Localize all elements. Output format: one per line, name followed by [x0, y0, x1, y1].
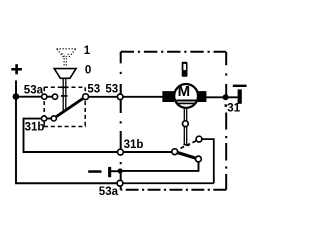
wire: motor 31b terminal to park pivot: [120, 151, 174, 153]
svg-text:53: 53: [105, 84, 118, 96]
switch knob position 1 (dotted funnel): [57, 49, 76, 66]
junction dot: terminal 31 on border: [223, 94, 229, 100]
svg-text:31b: 31b: [124, 139, 144, 151]
wire: park lower contact to ground junction: [120, 159, 199, 171]
thermal cut-out above motor: [182, 62, 188, 77]
wire: switch contact 53 to motor terminal 53 and motor brush: [86, 96, 163, 98]
svg-text:M: M: [178, 83, 191, 100]
switch lever 31b-53 (closed): [54, 97, 86, 119]
terminal 31b switch plug circles: [42, 116, 47, 121]
park switch lever solid (parked, on lower contact): [175, 152, 199, 159]
svg-text:31b: 31b: [25, 122, 45, 134]
wire: supply line from + down the left side and along the bottom to 53a: [15, 80, 120, 183]
park run contact circle: [196, 136, 202, 142]
linkage joint circle: [183, 121, 189, 127]
motor M1 (circle with M and underline): [174, 83, 198, 108]
wire: motor right brush to terminal 31 and ground: [206, 96, 238, 98]
junction dot: ground terminal on border: [118, 168, 123, 173]
ground symbol 31 (bars): [233, 85, 247, 104]
svg-text:1: 1: [84, 45, 91, 57]
park switch pivot circle: [172, 149, 178, 155]
wire: bridge between 31b plug circles: [44, 118, 54, 120]
park lower contact circle: [196, 156, 202, 162]
motor crank linkage (double line down to park switch): [183, 108, 189, 146]
wire: switch 31b out to motor terminal 31b: [23, 119, 121, 152]
switch contact circle 53: [83, 94, 89, 100]
wire: bridge between 53a plug circles: [44, 96, 55, 98]
battery plus terminal +: [11, 64, 22, 74]
terminal circle 31b (motor box): [118, 149, 124, 155]
svg-text:53a: 53a: [99, 186, 119, 198]
svg-text:0: 0: [85, 65, 91, 77]
label 31 with border dot: [225, 104, 228, 107]
switch knob position 0 (solid funnel): [54, 69, 76, 79]
terminal 53a switch plug circles: [42, 94, 47, 99]
terminal circle 53 (motor box): [117, 94, 123, 100]
wire: run contact wrap-around to terminal 53a: [120, 139, 214, 183]
terminal circle 53a (motor box): [117, 180, 123, 186]
wiper motor assembly border (dash-dot box): [121, 52, 227, 190]
svg-text:31: 31: [227, 102, 240, 114]
switch knob stem linkage (double line with tick bars): [61, 79, 68, 111]
junction node: supply / 53a tap: [13, 93, 20, 100]
park switch lever dashed (run position): [181, 140, 198, 148]
wiper switch housing (dashed box): [44, 87, 86, 126]
svg-text:53: 53: [87, 84, 100, 96]
wire: supply tap to switch terminal 53a: [15, 96, 44, 98]
motor brushes: [162, 91, 174, 102]
ground connector symbol (minus and plug bar): [88, 167, 120, 177]
svg-text:53a: 53a: [24, 84, 44, 96]
